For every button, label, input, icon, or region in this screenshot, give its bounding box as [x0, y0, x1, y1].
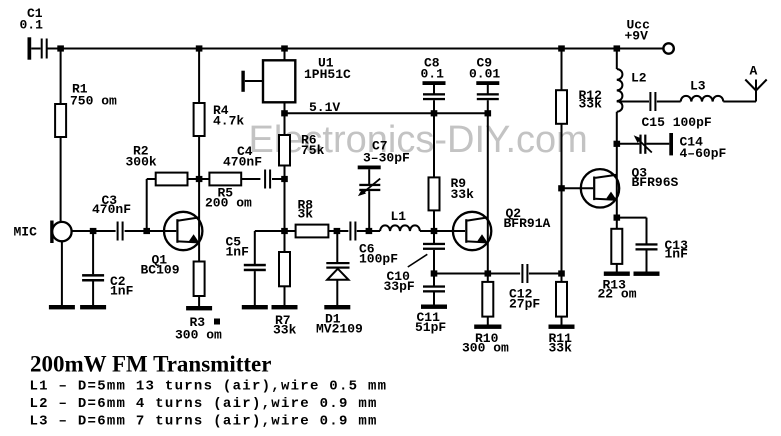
- capacitor C15: [617, 101, 649, 103]
- svg-text:33k: 33k: [451, 187, 475, 202]
- svg-text:300 om: 300 om: [462, 341, 509, 356]
- node junction Q2 emitter R10: [485, 270, 492, 276]
- capacitor C13: [617, 217, 647, 219]
- node junction C5-R8-R7: [281, 228, 288, 234]
- wire MIC to ground: [61, 241, 63, 305]
- svg-text:L2 – D=6mm 4 turns (air),wire: L2 – D=6mm 4 turns (air),wire 0.9 mm: [30, 396, 378, 412]
- capacitor C2: [92, 231, 94, 274]
- inductor L3: [681, 96, 724, 102]
- svg-text:1nF: 1nF: [110, 284, 134, 299]
- svg-text:4–60pF: 4–60pF: [680, 146, 727, 161]
- trimmer capacitor C7: [358, 166, 381, 170]
- svg-text:33pF: 33pF: [384, 279, 415, 294]
- svg-text:C15 100pF: C15 100pF: [642, 115, 712, 130]
- resistor R11: [561, 274, 563, 282]
- svg-text:3–30pF: 3–30pF: [363, 151, 410, 166]
- svg-text:BFR96S: BFR96S: [632, 175, 679, 190]
- svg-text:470nF: 470nF: [223, 155, 262, 170]
- wire R12 to emitter rail: [561, 188, 563, 273]
- node junction L1-R9-Q2 base: [431, 228, 438, 234]
- wire top rail Ucc: [47, 48, 664, 50]
- resistor R9: [433, 113, 435, 177]
- svg-text:3k: 3k: [298, 207, 314, 222]
- resistor R13: [616, 218, 618, 229]
- svg-text:0.1: 0.1: [20, 18, 44, 33]
- svg-text:75k: 75k: [301, 143, 325, 158]
- capacitor C11: [433, 274, 435, 286]
- callout line C10: [408, 254, 428, 267]
- svg-text:MV2109: MV2109: [316, 322, 363, 337]
- resistor R2: [147, 178, 156, 180]
- resistor R10: [487, 274, 489, 282]
- capacitor C6: [349, 222, 351, 241]
- svg-text:750 om: 750 om: [70, 94, 117, 109]
- wire emitter rail: [434, 273, 520, 275]
- capacitor C8: [423, 81, 446, 85]
- svg-text:BFR91A: BFR91A: [504, 216, 551, 231]
- svg-text:0.1: 0.1: [421, 67, 445, 82]
- ground C2: [80, 305, 106, 309]
- capacitor C4: [264, 170, 266, 189]
- node junction R12 top rail: [558, 45, 565, 51]
- capacitor C10: [433, 231, 435, 243]
- antenna A: [755, 80, 757, 102]
- svg-text:0.01: 0.01: [469, 67, 500, 82]
- resistor R12: [561, 49, 563, 91]
- svg-text:300 om: 300 om: [175, 328, 222, 343]
- svg-text:L2: L2: [631, 71, 647, 86]
- node junction C9 5.1V Q2 collector: [485, 110, 492, 116]
- svg-text:1nF: 1nF: [226, 245, 250, 260]
- transistor Q1 BC109: [198, 179, 200, 262]
- wire R6 junction down to R8 row: [284, 179, 286, 231]
- svg-text:L1: L1: [391, 209, 407, 224]
- resistor R6: [284, 113, 286, 135]
- node junction R4-R2-R5-Q1 collector: [196, 176, 203, 182]
- wire Q2 collector-emitter: [487, 113, 489, 273]
- node junction R11-R12-C12: [558, 270, 565, 276]
- svg-text:33k: 33k: [579, 97, 603, 112]
- svg-text:27pF: 27pF: [509, 297, 540, 312]
- wire 5.1V rail: [285, 112, 488, 114]
- svg-text:MIC: MIC: [14, 225, 38, 240]
- wire U1 to 5.1V rail: [284, 102, 286, 113]
- node junction U1 top rail: [281, 45, 288, 51]
- transistor Q2 BFR91A: [453, 212, 491, 250]
- svg-text:100pF: 100pF: [359, 252, 398, 267]
- node junction C2: [90, 228, 97, 234]
- trimmer capacitor C14: [617, 143, 640, 145]
- node junction R8-D1-C6: [334, 228, 341, 234]
- resistor R7: [284, 231, 286, 252]
- svg-text:A: A: [750, 64, 758, 79]
- svg-text:33k: 33k: [273, 323, 297, 338]
- microphone MIC: [50, 221, 53, 244]
- node junction R4 top rail: [196, 45, 203, 51]
- node junction U1 5.1V: [281, 110, 288, 116]
- svg-text:+9V: +9V: [625, 29, 649, 44]
- inductor L2: [616, 49, 618, 70]
- transistor Q3 BFR96S: [581, 169, 619, 207]
- svg-text:L3 – D=6mm 7 turns (air),wire: L3 – D=6mm 7 turns (air),wire 0.9 mm: [30, 414, 378, 430]
- resistor R3: [194, 262, 205, 297]
- svg-text:300k: 300k: [126, 155, 157, 170]
- terminal Ucc +9V: [663, 43, 673, 53]
- resistor R1: [60, 49, 62, 105]
- wire Q3 collector-emitter: [616, 144, 618, 218]
- wire R2 to base junction: [146, 179, 148, 231]
- node junction Q3 base: [558, 185, 565, 191]
- svg-text:L1 – D=5mm 13 turns (air),wire: L1 – D=5mm 13 turns (air),wire 0.5 mm: [30, 379, 388, 395]
- svg-text:5.1V: 5.1V: [309, 100, 340, 115]
- resistor R5: [199, 178, 209, 180]
- node junction C6-C7-L1: [366, 228, 373, 234]
- svg-text:4.7k: 4.7k: [213, 114, 244, 129]
- node junction L2 top rail: [614, 45, 621, 51]
- capacitor C9: [476, 81, 499, 85]
- svg-text:L3: L3: [690, 79, 706, 94]
- svg-text:200 om: 200 om: [205, 196, 252, 211]
- resistor R8: [285, 230, 296, 232]
- node junction C1-R1: [57, 45, 64, 51]
- svg-text:Electronics-DIY.com: Electronics-DIY.com: [249, 119, 588, 161]
- node junction C8 5.1V: [431, 110, 438, 116]
- svg-text:BC109: BC109: [141, 263, 180, 278]
- capacitor C5: [255, 230, 285, 232]
- svg-text:1PH51C: 1PH51C: [304, 67, 351, 82]
- node junction L2-C14-Q3 collector: [614, 141, 621, 147]
- svg-text:200mW FM Transmitter: 200mW FM Transmitter: [30, 352, 271, 377]
- diode D1 MV2109 varactor: [336, 231, 338, 263]
- node junction Q1 base: [143, 228, 150, 234]
- capacitor C3: [117, 222, 119, 241]
- node junction Q3 emitter C13: [614, 215, 621, 221]
- svg-text:33k: 33k: [549, 341, 573, 356]
- ic U1 1PH51C: [284, 49, 286, 61]
- resistor R4: [198, 49, 200, 104]
- capacitor C1: [28, 37, 32, 59]
- svg-text:1nF: 1nF: [665, 247, 689, 262]
- node junction C4-R6: [281, 176, 288, 182]
- svg-text:51pF: 51pF: [415, 320, 446, 335]
- wire Q3 base: [562, 187, 594, 189]
- wire C3 to Q1 base: [125, 230, 177, 232]
- ground MIC: [49, 305, 75, 309]
- svg-text:470nF: 470nF: [92, 202, 131, 217]
- inductor L1: [380, 225, 420, 231]
- node junction C10-C11: [431, 270, 438, 276]
- capacitor C12: [521, 264, 523, 283]
- wire MIC output: [72, 230, 116, 232]
- svg-text:22 om: 22 om: [598, 287, 637, 302]
